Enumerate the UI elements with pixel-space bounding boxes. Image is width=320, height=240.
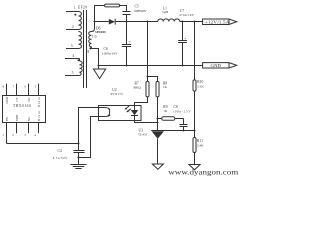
diode D6	[109, 19, 115, 25]
+12V output flag	[203, 19, 237, 25]
capacitor C8	[180, 119, 188, 131]
svg-text:PC817C: PC817C	[111, 92, 125, 96]
U1 top pin 7	[13, 84, 17, 96]
wire drop to R7 R8	[148, 22, 158, 82]
+12V rail wire	[116, 21, 158, 23]
node: secondary top junction	[94, 21, 96, 23]
svg-text:MBR10100: MBR10100	[95, 30, 106, 34]
FB wire to optocoupler	[7, 143, 79, 145]
svg-text:10: 10	[92, 35, 97, 39]
wire U2 emitter to ground node	[79, 117, 99, 158]
IC U1 THX016S box	[3, 96, 46, 123]
node divider	[194, 130, 196, 132]
svg-text:5: 5	[72, 71, 74, 75]
svg-text:2: 2	[72, 25, 74, 29]
svg-text:www.dyangon.com: www.dyangon.com	[168, 167, 238, 176]
svg-text:TL431: TL431	[138, 133, 148, 137]
U1 top pin 8	[3, 84, 7, 96]
transformer primary winding pins 1-2	[66, 12, 81, 30]
U1 bottom pin 4	[34, 123, 38, 137]
svg-text:1K: 1K	[163, 85, 168, 89]
inductor L1	[158, 19, 180, 22]
svg-text:VDD: VDD	[15, 114, 19, 121]
node LED cathode junction	[157, 122, 159, 124]
svg-text:2.4K: 2.4K	[197, 144, 204, 148]
wire R10 to divider node	[194, 91, 196, 137]
U2 light arrows	[124, 106, 130, 112]
transformer T1 core	[84, 10, 87, 88]
node FB junction	[78, 143, 80, 145]
wire R10 branch	[194, 22, 196, 80]
resistor R10	[193, 80, 196, 91]
TL431 U3	[151, 131, 164, 164]
transformer secondary winding pins 10-8	[89, 22, 95, 49]
node C7 top	[182, 21, 184, 23]
node C7 bottom	[182, 65, 184, 67]
transformer winding pins 2-3	[66, 32, 82, 49]
wire secondary to diode	[95, 21, 109, 23]
phase dot winding1	[74, 14, 76, 16]
GND rail wire	[99, 65, 203, 67]
svg-text:4: 4	[73, 54, 75, 58]
svg-text:5.1K: 5.1K	[197, 85, 204, 89]
wire R7 to LED anode	[135, 97, 148, 106]
svg-text:GND: GND	[211, 63, 222, 68]
svg-text:8: 8	[88, 50, 90, 54]
svg-text:NC: NC	[27, 96, 31, 101]
svg-text:1: 1	[74, 6, 76, 10]
capacitor C7 electrolytic	[178, 22, 187, 66]
node C4 bottom	[78, 157, 80, 159]
resistor R8	[156, 81, 159, 97]
node R7R8 drop on +12V rail	[147, 21, 149, 23]
node: ground rail left	[98, 65, 100, 67]
TL431 ref wire	[164, 130, 195, 132]
U1 top pin 5	[35, 84, 39, 96]
ground symbol under TL431	[152, 164, 163, 169]
svg-text:CT: CT	[15, 97, 19, 101]
node R9 junction	[157, 118, 159, 120]
U1 bottom pin 1	[2, 123, 6, 144]
U1 bottom pin 2	[12, 123, 16, 137]
svg-text:C4: C4	[58, 149, 62, 153]
svg-text:NC: NC	[27, 116, 31, 121]
wire pin8 to ground rail	[90, 49, 98, 66]
svg-text:470u/16V: 470u/16V	[179, 13, 195, 17]
resistor R11	[193, 138, 196, 153]
capacitor C5	[123, 12, 131, 22]
capacitor C4	[73, 144, 84, 158]
node C8 bottom	[183, 130, 185, 132]
wire U2 collector to FB node	[79, 108, 99, 144]
svg-text:GND: GND	[5, 96, 9, 103]
svg-text:1K: 1K	[163, 109, 168, 113]
svg-text:16PF100V: 16PF100V	[134, 9, 147, 13]
svg-text:C5: C5	[135, 5, 139, 9]
svg-text:EF20: EF20	[78, 6, 87, 10]
node R7 top	[147, 76, 149, 78]
svg-text:C6: C6	[104, 47, 108, 51]
resistor R9	[158, 117, 184, 121]
node R10 drop on +12V rail	[194, 21, 196, 23]
earth ground under C4	[71, 158, 87, 169]
node C5/C6 on +12V rail	[126, 21, 128, 23]
ground symbol at transformer	[94, 66, 106, 79]
svg-text:+12V/1.5A: +12V/1.5A	[205, 19, 231, 24]
capacitor C6 electrolytic	[122, 22, 132, 66]
svg-text:R11: R11	[197, 139, 203, 143]
U1 top pin 6	[25, 84, 29, 96]
svg-text:C7: C7	[180, 9, 184, 13]
node: secondary bottom junction pin8	[89, 48, 91, 50]
svg-text:1000u/16V: 1000u/16V	[102, 52, 118, 56]
phase dot winding 4-5	[77, 59, 79, 61]
U2 phototransistor	[99, 108, 110, 117]
snubber resistor	[95, 4, 127, 21]
U2 LED	[131, 106, 138, 121]
svg-text:100n/25V: 100n/25V	[172, 109, 191, 113]
svg-text:Drain: Drain	[37, 110, 41, 121]
wire R11 to ground	[194, 153, 196, 165]
node C6 on ground rail	[126, 65, 128, 67]
transformer aux winding pins 4-5	[65, 59, 82, 76]
svg-text:3μH: 3μH	[162, 10, 169, 14]
svg-text:4.7u/50V: 4.7u/50V	[53, 156, 69, 160]
svg-text:3: 3	[71, 44, 73, 48]
svg-text:36KΩ: 36KΩ	[133, 86, 142, 90]
GND output flag	[203, 63, 237, 68]
svg-text:THX016S: THX016S	[13, 104, 31, 108]
U1 bottom pin 3	[24, 123, 28, 137]
wire LED cathode to TL431 node	[135, 121, 158, 123]
wire R8 to TL431 cathode	[157, 97, 159, 131]
svg-text:Drain: Drain	[37, 96, 41, 107]
ground symbol under R11	[189, 165, 200, 170]
optocoupler U2 box	[99, 106, 142, 121]
resistor R7	[146, 81, 149, 97]
